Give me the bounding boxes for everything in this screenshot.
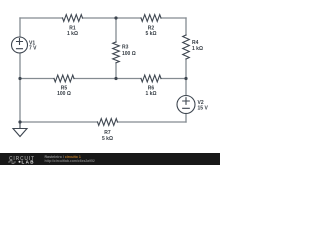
resistor R5 xyxy=(54,75,74,82)
svg-text:100 Ω: 100 Ω xyxy=(57,91,71,97)
wire node A to R2 xyxy=(116,17,141,19)
node C junction dot xyxy=(184,77,187,80)
resistor R1 xyxy=(63,15,83,22)
svg-text:1 kΩ: 1 kΩ xyxy=(67,31,78,37)
wire right rail to R4 xyxy=(185,18,187,35)
wire V2 bottom to bottom right corner xyxy=(185,114,187,123)
CircuitLab logo xyxy=(8,156,34,165)
svg-text:1 kΩ: 1 kΩ xyxy=(146,91,157,97)
watermark bar xyxy=(0,153,220,165)
voltage source V2 xyxy=(177,96,195,114)
wire node A down to R3 xyxy=(115,18,117,42)
wire node B to R6 xyxy=(116,78,141,80)
wire R5 to node B xyxy=(74,78,116,80)
wire R3 bottom to node B xyxy=(115,63,117,79)
node B-left junction dot xyxy=(18,77,21,80)
svg-text:R3: R3 xyxy=(122,45,129,51)
wire R1 to node A xyxy=(83,17,117,19)
resistor R4 xyxy=(183,35,190,59)
watermark info text xyxy=(45,155,95,163)
svg-text:1 kΩ: 1 kΩ xyxy=(192,46,203,52)
ground node junction dot xyxy=(18,120,21,123)
svg-text:15 V: 15 V xyxy=(198,106,209,112)
wire bottom left to R7 xyxy=(20,121,98,123)
ground xyxy=(13,122,27,137)
resistor R3 xyxy=(113,42,120,63)
node A junction dot xyxy=(114,16,117,19)
svg-text:LAB: LAB xyxy=(22,160,35,165)
wire middle left to R5 xyxy=(20,78,54,80)
wire R7 to bottom right corner xyxy=(118,121,187,123)
svg-text:7 V: 7 V xyxy=(29,46,37,52)
node B junction dot xyxy=(114,77,117,80)
wire R2 to top right corner xyxy=(161,17,186,19)
resistor R6 xyxy=(141,75,161,82)
voltage source V1 xyxy=(12,37,28,53)
wire left rail V1 top xyxy=(19,18,21,37)
svg-text:5 kΩ: 5 kΩ xyxy=(146,31,157,37)
svg-text:http://circuitlab.com/c6xs2a95: http://circuitlab.com/c6xs2a952 xyxy=(45,159,95,163)
resistor R7 xyxy=(98,119,118,126)
resistor R2 xyxy=(141,15,161,22)
wire left rail V1 bottom to ground node xyxy=(19,53,21,122)
wire R4 bottom to node C xyxy=(185,59,187,96)
wire top left corner to R1 xyxy=(20,17,63,19)
svg-text:5 kΩ: 5 kΩ xyxy=(102,136,113,142)
svg-text:100 Ω: 100 Ω xyxy=(122,51,136,57)
wire R6 to node C xyxy=(161,78,186,80)
